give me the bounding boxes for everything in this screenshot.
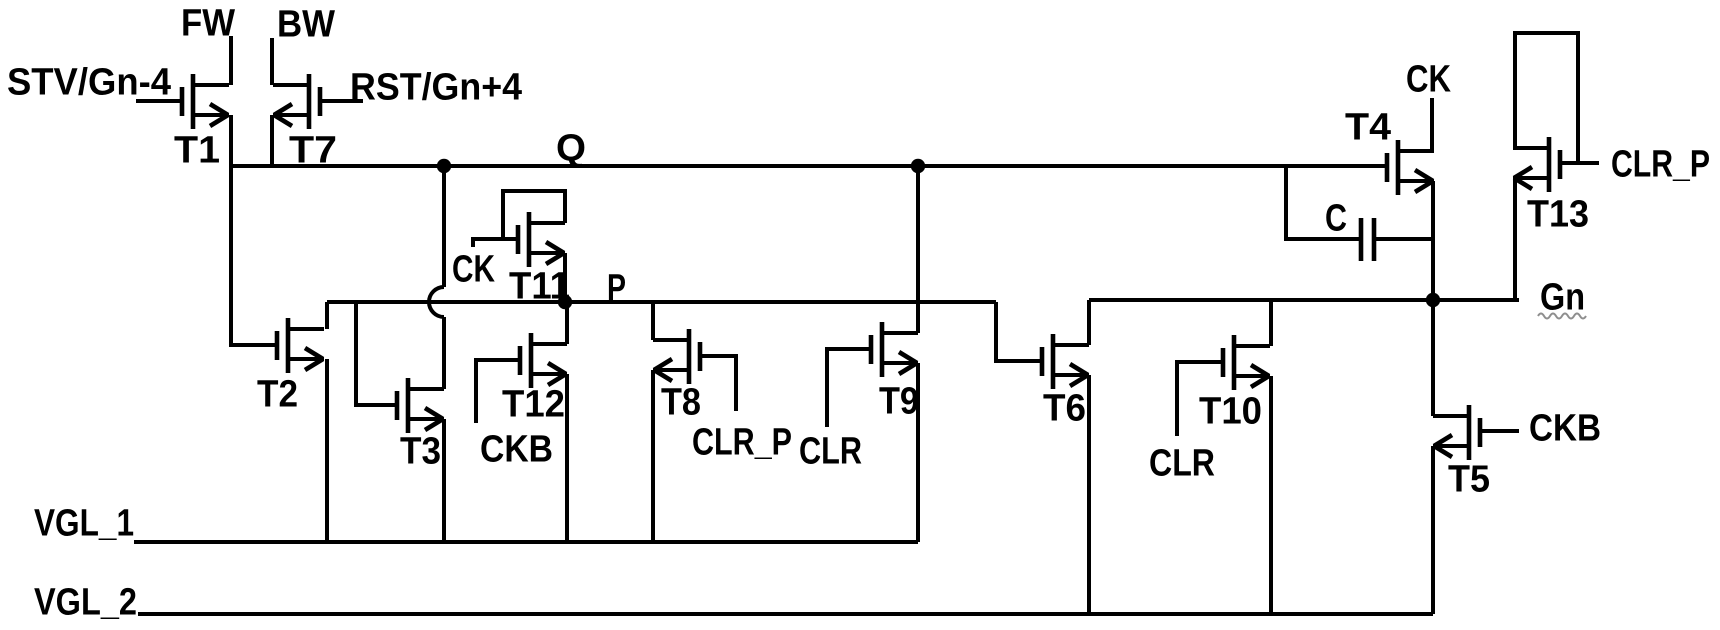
- svg-text:T7: T7: [289, 130, 337, 172]
- node Q label: [556, 128, 586, 170]
- net CLR label at T9: [799, 431, 862, 473]
- transistor T9: [871, 322, 918, 377]
- label T1: [174, 130, 220, 172]
- wire Gn net: [1089, 298, 1519, 302]
- svg-text:P: P: [607, 268, 626, 310]
- node P label: [607, 268, 626, 310]
- wire P step to T6 gate: [996, 302, 1044, 361]
- wire T9 drain up to Q dot crossing P: [916, 166, 920, 333]
- wire FW drop to T1 drain: [229, 36, 233, 85]
- svg-text:T2: T2: [257, 374, 298, 416]
- wire BW drop to T7 drain: [270, 38, 274, 85]
- label T6: [1043, 388, 1086, 430]
- transistor T6: [1042, 334, 1089, 389]
- transistor T2: [277, 318, 324, 373]
- svg-text:T10: T10: [1199, 391, 1262, 433]
- wire Q net: [231, 164, 1387, 168]
- svg-text:T6: T6: [1043, 388, 1086, 430]
- wire T13 source down to Gn wire: [1513, 178, 1517, 300]
- svg-text:CLR: CLR: [799, 431, 862, 473]
- label T12: [502, 384, 565, 426]
- net CK label at T4: [1406, 59, 1451, 101]
- net CLR label at T10: [1149, 443, 1215, 485]
- net CLR_P label at T13: [1611, 144, 1710, 186]
- svg-text:T8: T8: [661, 382, 701, 424]
- svg-text:CKB: CKB: [480, 429, 553, 471]
- wire RST gate lead to T7: [320, 99, 363, 103]
- wire T2 drain up to P: [325, 302, 329, 329]
- squiggle underline under Gn: [1538, 314, 1586, 319]
- wire T7 source down to Q: [270, 115, 274, 166]
- wire T9 gate lead with CLR stub: [827, 349, 873, 427]
- wire T11 gate lead with CK stub: [473, 239, 520, 247]
- wire VGL_1 rail: [134, 540, 918, 544]
- net CKB label at T5: [1529, 408, 1601, 450]
- node Gn label: [1540, 277, 1585, 319]
- wire T9 source down to VGL_1 end: [916, 363, 920, 542]
- svg-text:CLR_P: CLR_P: [1611, 144, 1710, 186]
- transistor T11: [518, 212, 565, 267]
- wire T12 gate lead with CKB stub: [476, 360, 522, 423]
- label T5: [1448, 459, 1490, 501]
- wire T1 source down through Q to T2 gate: [229, 115, 233, 345]
- svg-text:VGL_2: VGL_2: [34, 582, 137, 624]
- net STV/Gn-4 label: [7, 62, 171, 104]
- svg-text:T12: T12: [502, 384, 565, 426]
- net CK label at T11: [452, 249, 495, 291]
- svg-text:T13: T13: [1527, 194, 1589, 236]
- wire T2 source down to VGL_1: [325, 359, 329, 542]
- svg-text:T4: T4: [1345, 107, 1391, 149]
- junction dot P at x565: [558, 295, 572, 309]
- label T8: [661, 382, 701, 424]
- wire T13 gate lead to CLR_P: [1558, 161, 1599, 165]
- wire capacitor to T4 source vertical: [1376, 237, 1433, 241]
- svg-text:T9: T9: [879, 381, 919, 423]
- wire T5 gate lead: [1478, 429, 1519, 433]
- wire STV gate lead to T1: [136, 99, 182, 103]
- net FW label: [181, 3, 235, 45]
- wire Q branch to capacitor: [1286, 166, 1359, 239]
- wire T10 source down to VGL_2: [1269, 376, 1273, 614]
- svg-text:Gn: Gn: [1540, 277, 1585, 319]
- wire P net: [327, 300, 996, 304]
- wire T4 source down to Gn dot: [1431, 181, 1435, 300]
- transistor T1: [182, 74, 229, 129]
- svg-text:T5: T5: [1448, 459, 1490, 501]
- wire T8 source down to VGL_1: [651, 370, 655, 542]
- wire hop to T3 drain: [442, 317, 446, 389]
- svg-text:CK: CK: [452, 249, 495, 291]
- transistor T4: [1387, 140, 1434, 195]
- wire CK stub to T4 drain: [1430, 98, 1434, 151]
- wire VGL_2 rail: [138, 612, 1433, 616]
- wire T8 drain up to P: [651, 302, 655, 340]
- wire T6 source down to VGL_2: [1087, 375, 1091, 614]
- label T11: [509, 266, 570, 308]
- svg-text:CLR_P: CLR_P: [692, 422, 792, 464]
- svg-text:CLR: CLR: [1149, 443, 1215, 485]
- wire T6 drain up to Gn wire: [1087, 300, 1091, 345]
- label T13: [1527, 194, 1589, 236]
- svg-text:BW: BW: [277, 4, 335, 46]
- svg-text:C: C: [1325, 198, 1347, 240]
- net BW label: [277, 4, 335, 46]
- svg-text:RST/Gn+4: RST/Gn+4: [350, 67, 522, 109]
- svg-text:T3: T3: [400, 431, 441, 473]
- svg-text:CK: CK: [1406, 59, 1451, 101]
- label T2: [257, 374, 298, 416]
- wire T12 source down to VGL_1: [565, 374, 569, 542]
- svg-text:Q: Q: [556, 128, 586, 170]
- wire T3 gate from P: [356, 302, 399, 405]
- junction dot Gn at x1433: [1426, 293, 1440, 307]
- label T7: [289, 130, 337, 172]
- transistor T3: [397, 378, 444, 433]
- label T10: [1199, 391, 1262, 433]
- transistor T7: [273, 74, 320, 129]
- net VGL_1 label: [34, 503, 134, 545]
- label T4: [1345, 107, 1391, 149]
- wire T5 source down to VGL_2 end: [1431, 446, 1435, 614]
- svg-text:FW: FW: [181, 3, 235, 45]
- label C: [1325, 198, 1347, 240]
- wire T2 gate lead: [229, 343, 279, 347]
- svg-text:CKB: CKB: [1529, 408, 1601, 450]
- junction dot Q at x918: [911, 159, 925, 173]
- wire T8 gate lead with CLR_P stub: [698, 356, 736, 411]
- svg-text:VGL_1: VGL_1: [34, 503, 134, 545]
- wire T11 source down to P dot: [563, 253, 567, 302]
- transistor T10: [1223, 335, 1270, 390]
- label T3: [400, 431, 441, 473]
- junction dot Q at x444: [437, 159, 451, 173]
- net VGL_2 label: [34, 582, 137, 624]
- transistor T8: [653, 329, 700, 384]
- wire T3 source down to VGL_1: [442, 419, 446, 542]
- wire T10 drain up to Gn wire: [1269, 300, 1273, 346]
- wire T11 drain-gate loop: [503, 191, 565, 241]
- wire T12 drain up to P dot: [565, 302, 569, 344]
- transistor T5: [1433, 405, 1480, 460]
- net CLR_P label at T8: [692, 422, 792, 464]
- wire T5 drain up to Gn dot: [1431, 300, 1435, 416]
- net RST/Gn+4 label: [350, 67, 522, 109]
- wire Q down to hop: [442, 166, 446, 287]
- wire T10 gate lead with CLR stub: [1177, 362, 1225, 436]
- wire T13 drain-gate loop: [1515, 33, 1578, 163]
- capacitor C plates: [1361, 218, 1374, 261]
- transistor T13: [1513, 137, 1560, 192]
- label T9: [879, 381, 919, 423]
- net CKB label at T12: [480, 429, 553, 471]
- svg-text:T1: T1: [174, 130, 220, 172]
- svg-text:STV/Gn-4: STV/Gn-4: [7, 62, 171, 104]
- transistor T12: [520, 333, 567, 388]
- wire hop over P: [429, 287, 444, 317]
